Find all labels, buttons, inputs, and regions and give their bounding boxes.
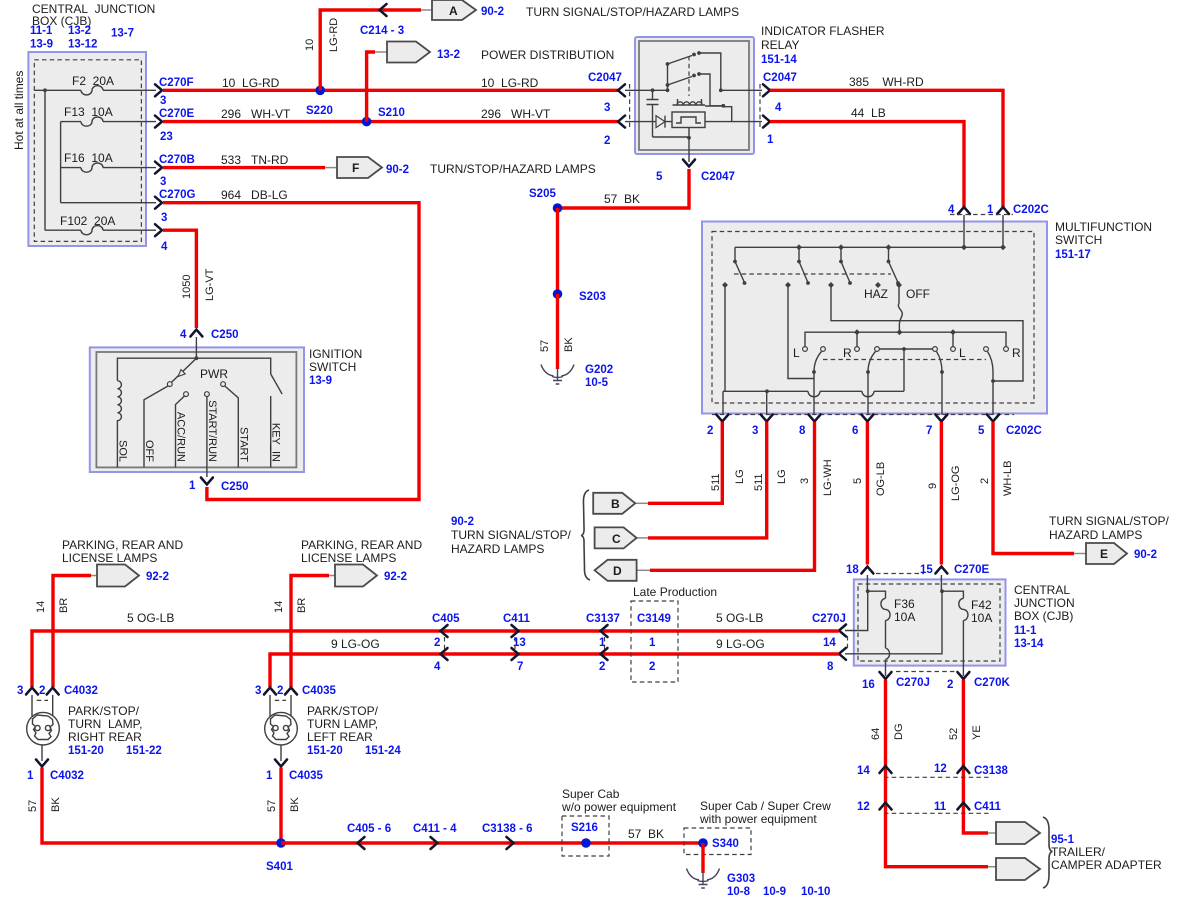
- svg-text:E: E: [1100, 547, 1108, 561]
- svg-text:F13 10A: F13 10A: [64, 105, 113, 119]
- box pulse generator: [672, 112, 705, 128]
- svg-text:C: C: [612, 532, 621, 546]
- svg-text:C3138: C3138: [974, 765, 1008, 777]
- switch contacts (relay top): [666, 51, 724, 106]
- node PWR junction: [195, 356, 199, 360]
- box multifunction switch: [702, 222, 1047, 414]
- svg-text:D: D: [613, 564, 622, 578]
- svg-text:C4032: C4032: [64, 685, 98, 697]
- wire pin3 to C: [648, 422, 767, 538]
- splice S216 Super Cab: [561, 787, 677, 856]
- wire 385 WH-RD (relay to MFS pin1): [770, 90, 1003, 207]
- wire 14 BR (to right lamp pin2): [53, 576, 91, 688]
- svg-text:B: B: [611, 497, 620, 511]
- label MULTIFUNCTION SWITCH 151-17: [1055, 220, 1152, 261]
- pin 1 C202C (top): [987, 204, 1049, 216]
- svg-text:90-2: 90-2: [386, 164, 409, 176]
- svg-text:S205: S205: [529, 188, 556, 200]
- wire left lamp ground to S401: [279, 768, 282, 844]
- node lower bus dots: [854, 329, 956, 335]
- svg-text:151-20: 151-20: [307, 745, 343, 757]
- wire pin2 drop: [722, 391, 724, 415]
- svg-text:10: 10: [304, 39, 316, 51]
- svg-text:BK: BK: [289, 797, 301, 812]
- svg-text:23: 23: [160, 131, 173, 143]
- connector C411 (right): [857, 801, 1001, 813]
- lamp right rear: [27, 695, 60, 761]
- contact HAZ: [875, 282, 881, 288]
- svg-text:TURN SIGNAL/STOP/: TURN SIGNAL/STOP/: [1049, 514, 1169, 528]
- svg-text:2: 2: [434, 637, 440, 649]
- svg-text:START: START: [237, 427, 249, 462]
- contact START/RUN: [205, 392, 210, 397]
- svg-text:92-2: 92-2: [146, 571, 169, 583]
- svg-text:4: 4: [434, 661, 441, 673]
- label CJB title: [30, 2, 155, 51]
- fuse F2 20A: [72, 74, 114, 95]
- svg-text:9 LG-OG: 9 LG-OG: [716, 637, 765, 651]
- connector C405: [432, 613, 460, 673]
- svg-text:5: 5: [978, 425, 985, 437]
- svg-text:WH-LB: WH-LB: [1002, 461, 1014, 496]
- svg-text:C214 - 3: C214 - 3: [360, 25, 404, 37]
- fuse F13 10A: [64, 105, 113, 126]
- wire bus in CJB: [34, 90, 156, 230]
- svg-text:with power equipment: with power equipment: [699, 812, 817, 826]
- label PARKING, REAR AND LICENSE LAMPS (left lamp): [301, 538, 422, 565]
- svg-text:C411: C411: [503, 613, 530, 625]
- wire pin14 internal: [845, 591, 868, 630]
- svg-text:C202C: C202C: [1006, 425, 1042, 437]
- node cap junction: [651, 88, 655, 92]
- svg-text:4: 4: [775, 102, 782, 114]
- svg-text:LICENSE LAMPS: LICENSE LAMPS: [301, 551, 396, 565]
- pin 1 C4035: [266, 760, 323, 783]
- contact OFF: [167, 382, 172, 387]
- switch turn arm 1: [812, 347, 825, 374]
- wire CJB2 pin15 internal: [941, 575, 963, 598]
- svg-text:JUNCTION: JUNCTION: [1014, 596, 1075, 610]
- svg-text:296 WH-VT: 296 WH-VT: [481, 107, 551, 121]
- pin 2 (MFS): [707, 415, 728, 438]
- svg-text:13: 13: [513, 637, 526, 649]
- svg-text:F42: F42: [971, 598, 992, 612]
- svg-text:DG: DG: [893, 724, 905, 741]
- svg-text:1: 1: [649, 637, 656, 649]
- fuse F36 10A: [881, 597, 915, 624]
- svg-text:2: 2: [979, 478, 991, 484]
- wire riser S210 to connector 13-2: [367, 52, 375, 122]
- svg-text:C4032: C4032: [50, 770, 84, 782]
- svg-text:LG: LG: [776, 469, 788, 484]
- pin 3 2 C4032: [17, 685, 98, 700]
- label 90-2 TURN SIGNAL/STOP/ HAZARD LAMPS: [451, 516, 571, 556]
- wire pin7 drop: [941, 372, 943, 415]
- wire pin3 drop: [766, 391, 768, 415]
- svg-text:F2 20A: F2 20A: [72, 74, 114, 88]
- svg-text:BK: BK: [563, 337, 575, 352]
- label INDICATOR FLASHER RELAY 151-14: [761, 24, 885, 66]
- svg-text:5 OG-LB: 5 OG-LB: [716, 611, 763, 625]
- svg-text:14: 14: [857, 765, 870, 777]
- wire F42 to pin2: [962, 620, 964, 676]
- svg-text:CAMPER ADAPTER: CAMPER ADAPTER: [1051, 858, 1162, 872]
- connector C270J labels: [812, 613, 846, 673]
- svg-text:S220: S220: [306, 105, 333, 117]
- wire pin6 to CJB2 pin18: [866, 422, 869, 565]
- svg-text:C270K: C270K: [974, 677, 1010, 689]
- switch PWR arm with slider: [172, 358, 197, 382]
- svg-text:S210: S210: [378, 107, 405, 119]
- pin C2047 1 (right): [763, 116, 774, 146]
- wire contact pin2 down: [723, 287, 725, 391]
- svg-text:C270J: C270J: [896, 677, 930, 689]
- svg-text:5: 5: [852, 478, 864, 484]
- wire CJB2 pin18 internal: [867, 575, 885, 598]
- contact ACC/RUN: [184, 392, 189, 397]
- node switch junction: [666, 88, 670, 92]
- svg-text:L: L: [793, 346, 800, 360]
- svg-text:C2047: C2047: [701, 171, 735, 183]
- svg-text:3: 3: [752, 425, 758, 437]
- svg-text:7: 7: [517, 661, 523, 673]
- connector B: [593, 493, 648, 514]
- coil SOL: [117, 381, 121, 468]
- svg-text:57: 57: [27, 800, 39, 812]
- svg-text:1050: 1050: [181, 275, 193, 299]
- svg-text:5: 5: [656, 171, 663, 183]
- fuse F42 10A: [959, 598, 993, 625]
- svg-text:18: 18: [846, 564, 859, 576]
- svg-text:SWITCH: SWITCH: [1055, 233, 1102, 247]
- svg-text:S203: S203: [579, 291, 606, 303]
- svg-text:11-1: 11-1: [1014, 625, 1037, 637]
- coil: [673, 99, 706, 105]
- svg-text:1: 1: [27, 770, 34, 782]
- svg-text:10A: 10A: [971, 611, 992, 625]
- svg-text:S340: S340: [712, 838, 739, 850]
- svg-text:PARK/STOP/: PARK/STOP/: [307, 704, 379, 718]
- svg-text:C270F: C270F: [159, 77, 194, 89]
- wire pin2 to B: [648, 422, 722, 503]
- contact START: [221, 382, 226, 387]
- connector C: [595, 527, 648, 548]
- svg-text:52: 52: [948, 728, 960, 740]
- wire S205 to S203: [556, 208, 559, 294]
- svg-text:BOX (CJB): BOX (CJB): [1014, 609, 1073, 623]
- svg-text:533 TN-RD: 533 TN-RD: [221, 153, 289, 167]
- svg-text:C3137: C3137: [586, 613, 620, 625]
- splice S401: [266, 838, 293, 873]
- svg-text:CENTRAL: CENTRAL: [1014, 583, 1070, 597]
- wire 9 LG-OG: [270, 654, 839, 687]
- ground G202: [541, 364, 613, 389]
- svg-text:TURN SIGNAL/STOP/HAZARD LAMPS: TURN SIGNAL/STOP/HAZARD LAMPS: [526, 5, 739, 19]
- fuse F102 20A: [60, 214, 115, 235]
- contact L (first): [803, 347, 808, 352]
- svg-text:296 WH-VT: 296 WH-VT: [221, 107, 291, 121]
- connector C3137: [586, 613, 620, 673]
- label TURN SIGNAL/STOP/ HAZARD LAMPS (E): [1049, 514, 1169, 542]
- switch turn arm 4: [984, 347, 995, 383]
- svg-text:Hot at all times: Hot at all times: [12, 71, 26, 150]
- svg-text:BR: BR: [296, 598, 308, 613]
- svg-text:2: 2: [599, 661, 605, 673]
- svg-text:C2047: C2047: [763, 72, 797, 84]
- pin C2047 3 (left): [588, 72, 625, 114]
- svg-text:15: 15: [920, 564, 933, 576]
- label PARKING, REAR AND LICENSE LAMPS (right): [62, 538, 183, 565]
- wire riser S220 to connector A: [320, 10, 421, 90]
- wire pin7 to CJB2 pin15: [940, 422, 943, 565]
- svg-text:RELAY: RELAY: [761, 38, 799, 52]
- switch hazard arm 4: [887, 247, 900, 285]
- wire relay internal pin4: [721, 89, 762, 91]
- svg-text:TURN/STOP/HAZARD LAMPS: TURN/STOP/HAZARD LAMPS: [430, 162, 596, 176]
- svg-text:PARKING, REAR AND: PARKING, REAR AND: [62, 538, 183, 552]
- svg-text:5 OG-LB: 5 OG-LB: [127, 611, 174, 625]
- label 95-1 TRAILER/ CAMPER ADAPTER: [1051, 834, 1162, 872]
- wire 14 BR (to left lamp pin2): [291, 576, 329, 688]
- svg-text:LG-VT: LG-VT: [204, 268, 216, 301]
- svg-text:11: 11: [934, 801, 947, 813]
- wire F36 to pin16 with crossover: [886, 620, 890, 676]
- svg-text:BK: BK: [50, 797, 62, 812]
- connector A 90-2: [421, 0, 504, 20]
- svg-text:14: 14: [273, 601, 285, 613]
- svg-text:1: 1: [266, 770, 273, 782]
- connector trailer 1: [988, 822, 1040, 844]
- svg-text:10 LG-RD: 10 LG-RD: [222, 76, 280, 90]
- box CJB2: [854, 579, 1006, 665]
- svg-text:C270E: C270E: [159, 108, 194, 120]
- pin 4 C250: [180, 329, 239, 341]
- svg-text:L: L: [959, 346, 966, 360]
- switch turn arm 2: [866, 347, 879, 374]
- svg-text:C250: C250: [211, 329, 239, 341]
- switch hazard arm 2: [797, 247, 810, 285]
- svg-text:Late Production: Late Production: [633, 585, 717, 599]
- wire 64 DG (pin16 down): [886, 680, 989, 867]
- svg-text:LG-RD: LG-RD: [328, 18, 340, 52]
- pin C2047 5 (bottom): [656, 160, 735, 184]
- wire pulse box to pin 5: [688, 128, 690, 163]
- pin 3 2 C4035: [255, 685, 336, 700]
- svg-text:3: 3: [255, 685, 261, 697]
- connector dash (MFS bottom): [712, 414, 1014, 416]
- svg-text:12: 12: [934, 763, 947, 775]
- svg-text:A: A: [449, 4, 458, 18]
- svg-text:13-9: 13-9: [309, 375, 332, 387]
- svg-text:16: 16: [862, 679, 875, 691]
- svg-text:SOL: SOL: [117, 440, 129, 462]
- svg-text:13-2: 13-2: [437, 49, 460, 61]
- svg-text:90-2: 90-2: [1134, 549, 1157, 561]
- svg-text:C270J: C270J: [812, 613, 846, 625]
- svg-text:1: 1: [189, 480, 196, 492]
- svg-text:964 DB-LG: 964 DB-LG: [221, 188, 288, 202]
- svg-text:C270B: C270B: [159, 154, 195, 166]
- contact L (second): [951, 347, 956, 352]
- svg-text:LG-OG: LG-OG: [950, 466, 962, 501]
- pin 15 C270E (CJB2): [920, 564, 989, 576]
- svg-text:13-7: 13-7: [111, 28, 134, 40]
- pin 6 (MFS): [852, 415, 873, 438]
- connector dash (CJB2 left): [847, 636, 849, 649]
- svg-text:LG: LG: [734, 469, 746, 484]
- svg-text:44 LB: 44 LB: [851, 106, 886, 120]
- svg-text:S216: S216: [571, 822, 598, 834]
- connector 13-2: [375, 42, 460, 63]
- svg-text:BR: BR: [58, 598, 70, 613]
- wire pin6 drop: [867, 372, 869, 415]
- svg-text:G202: G202: [585, 364, 613, 376]
- svg-text:511: 511: [710, 473, 722, 491]
- pin 1 C250: [189, 478, 249, 494]
- svg-text:2: 2: [277, 685, 283, 697]
- connector C3149 Late Production: [631, 585, 717, 682]
- connector D: [595, 560, 650, 581]
- dashed actuator (relay): [688, 56, 690, 96]
- svg-text:1: 1: [767, 134, 774, 146]
- svg-text:10A: 10A: [894, 610, 915, 624]
- svg-text:HAZARD LAMPS: HAZARD LAMPS: [1049, 528, 1142, 542]
- svg-text:9 LG-OG: 9 LG-OG: [331, 637, 380, 651]
- svg-text:2: 2: [39, 685, 45, 697]
- wire pin5 to E: [993, 422, 1074, 554]
- svg-text:4: 4: [180, 329, 187, 341]
- svg-text:151-14: 151-14: [761, 54, 797, 66]
- svg-text:HAZARD LAMPS: HAZARD LAMPS: [451, 542, 544, 556]
- svg-text:3: 3: [161, 212, 167, 224]
- svg-text:10 LG-RD: 10 LG-RD: [481, 76, 539, 90]
- wire 44 LB (relay to MFS pin4): [770, 122, 964, 207]
- pin 8 C270J (CJB2 left): [839, 648, 846, 660]
- svg-text:9: 9: [927, 483, 939, 489]
- svg-text:10-9: 10-9: [763, 886, 786, 898]
- pin 4 C202C (top): [948, 204, 970, 216]
- svg-text:TURN LAMP,: TURN LAMP,: [68, 717, 142, 731]
- svg-text:LICENSE LAMPS: LICENSE LAMPS: [62, 551, 157, 565]
- splice S203: [553, 289, 606, 303]
- svg-text:8: 8: [799, 425, 806, 437]
- wire 10 LG-RD (C270F to relay): [163, 89, 618, 92]
- svg-text:w/o power equipment: w/o power equipment: [561, 800, 677, 814]
- pin C2047 2 (left): [604, 116, 625, 147]
- capacitor: [647, 90, 659, 137]
- diode: [625, 116, 672, 128]
- contact R (second): [1004, 347, 1009, 352]
- wire to KEY_IN: [196, 358, 270, 374]
- pin 5 (MFS): [978, 415, 1042, 438]
- contact pin2: [722, 282, 728, 288]
- svg-text:RIGHT REAR: RIGHT REAR: [68, 730, 142, 744]
- svg-text:F16 10A: F16 10A: [64, 151, 113, 165]
- splice S210: [362, 107, 405, 126]
- pin 14 C270J (CJB2 left): [839, 625, 846, 637]
- svg-text:C4035: C4035: [289, 770, 323, 782]
- svg-text:57 BK: 57 BK: [604, 192, 640, 206]
- splice S220: [306, 86, 333, 118]
- wire 1050 LG-VT (F102 to ignition pin4): [163, 230, 196, 328]
- wire coil to pin1: [705, 106, 762, 122]
- svg-text:3: 3: [160, 95, 166, 107]
- connector C411: [503, 613, 530, 673]
- svg-text:C3138 - 6: C3138 - 6: [482, 823, 533, 835]
- svg-text:SWITCH: SWITCH: [309, 360, 356, 374]
- lamp left rear: [265, 695, 298, 761]
- svg-text:F102 20A: F102 20A: [60, 214, 115, 228]
- svg-text:C202C: C202C: [1013, 204, 1049, 216]
- wire MFS bottom bus with crossovers: [723, 389, 904, 396]
- svg-text:3: 3: [17, 685, 23, 697]
- svg-text:C405: C405: [432, 613, 460, 625]
- splice S205: [529, 188, 562, 213]
- svg-text:385 WH-RD: 385 WH-RD: [849, 75, 924, 89]
- svg-text:511: 511: [753, 473, 765, 491]
- pin 3 (MFS): [752, 415, 773, 438]
- svg-text:4: 4: [161, 241, 168, 253]
- contact OFF: [896, 282, 902, 288]
- svg-text:LG-WH: LG-WH: [822, 459, 834, 496]
- svg-text:13-2: 13-2: [68, 25, 91, 37]
- svg-text:OFF: OFF: [143, 440, 155, 462]
- svg-text:G303: G303: [727, 873, 755, 885]
- wire to SOL coil: [117, 358, 196, 381]
- wire pin5 drop: [992, 372, 994, 415]
- dashed linkage (turn): [823, 359, 986, 361]
- box CJB (top-left): [28, 52, 146, 246]
- svg-text:OFF: OFF: [906, 287, 930, 301]
- pin 7 (MFS): [926, 415, 947, 438]
- pin C270F 3: [155, 77, 194, 107]
- svg-text:2: 2: [947, 679, 953, 691]
- wire 57 BK (relay to S205): [558, 169, 690, 208]
- wire contact pin8 to right loop: [831, 287, 1023, 381]
- connector 92-2 (left lamp): [328, 565, 407, 587]
- svg-text:F36: F36: [894, 597, 915, 611]
- connector dash (CJB2 bottom): [896, 671, 955, 673]
- svg-text:C411: C411: [974, 801, 1001, 813]
- label PARK/STOP/ TURN LAMP, RIGHT REAR: [68, 704, 162, 757]
- switch hazard arm 1: [733, 247, 746, 285]
- svg-text:PARKING, REAR AND: PARKING, REAR AND: [301, 538, 422, 552]
- svg-text:57: 57: [539, 340, 551, 352]
- connector F 90-2: [325, 157, 409, 178]
- svg-text:C270G: C270G: [159, 189, 195, 201]
- svg-text:C2047: C2047: [588, 72, 622, 84]
- svg-text:Super Cab / Super Crew: Super Cab / Super Crew: [700, 799, 831, 813]
- pin 2 C270K (CJB2 bottom): [947, 672, 1010, 691]
- svg-text:10-10: 10-10: [801, 886, 830, 898]
- label PARK/STOP/ TURN LAMP, LEFT REAR: [307, 704, 401, 757]
- connector dash (CJB2 top): [876, 573, 924, 575]
- arrow toward A: [380, 4, 387, 16]
- svg-text:8: 8: [827, 661, 834, 673]
- svg-text:R: R: [843, 346, 852, 360]
- svg-text:TURN SIGNAL/STOP/: TURN SIGNAL/STOP/: [451, 528, 571, 542]
- connector C405 - 6: [347, 823, 391, 849]
- wire OFF wiper squiggle: [898, 287, 902, 332]
- wire S401 to S340: [281, 841, 703, 844]
- svg-text:C250: C250: [221, 481, 249, 493]
- label CENTRAL JUNCTION BOX (CJB) 11-1 13-14: [1014, 583, 1075, 650]
- wire S340 to G303: [701, 843, 704, 873]
- node bus junction: [43, 88, 47, 92]
- pin 18 (CJB2): [846, 564, 873, 576]
- switch turn arm 3: [933, 347, 944, 374]
- svg-text:HAZ: HAZ: [864, 287, 888, 301]
